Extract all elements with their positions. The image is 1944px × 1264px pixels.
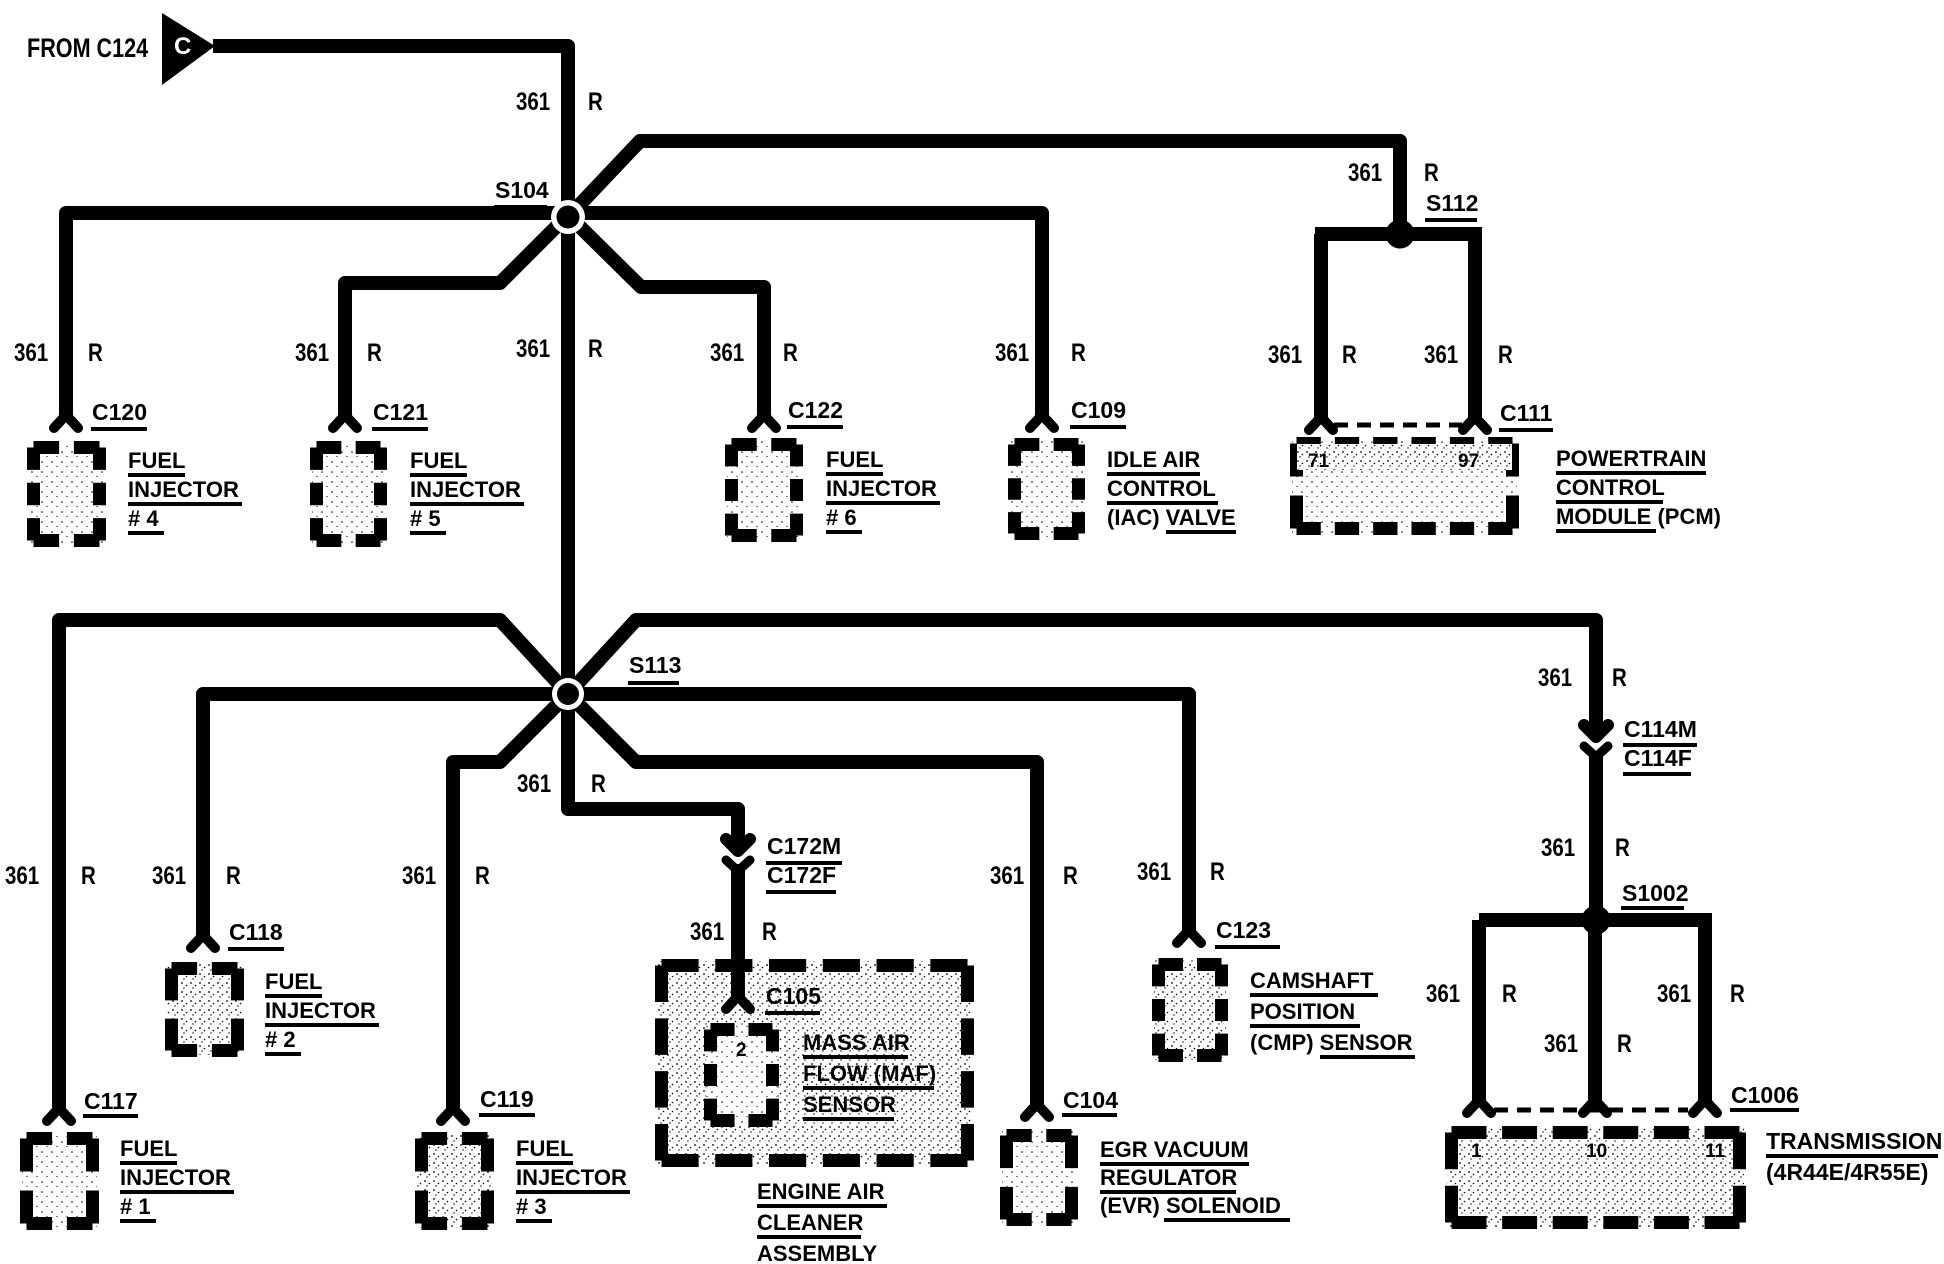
svg-text:361: 361: [990, 861, 1024, 889]
svg-text:R: R: [1498, 340, 1513, 368]
svg-text:R: R: [1730, 979, 1745, 1007]
svg-text:C121: C121: [373, 399, 428, 425]
svg-text:R: R: [1210, 857, 1225, 885]
svg-text:361: 361: [1657, 979, 1691, 1007]
PCM box C111: [1292, 439, 1517, 533]
dashed bar linking C1006 pins: [1494, 1108, 1688, 1113]
wire S113 right branch to C123: [568, 694, 1189, 930]
svg-text:C1006: C1006: [1731, 1082, 1799, 1108]
connector pin C119: [441, 1108, 465, 1121]
svg-text:361: 361: [1137, 857, 1171, 885]
svg-text:97: 97: [1458, 451, 1479, 472]
svg-text:C118: C118: [229, 919, 283, 945]
wire S104 right branch to C109: [568, 213, 1042, 415]
svg-text:C172F: C172F: [767, 862, 836, 888]
PCM box top stipple band: [1297, 444, 1512, 470]
CMP sensor connector box C123: [1154, 960, 1226, 1060]
svg-text:11: 11: [1705, 1141, 1726, 1162]
svg-text:R: R: [1424, 158, 1439, 186]
svg-text:361: 361: [1426, 979, 1460, 1007]
svg-text:C111: C111: [1500, 400, 1553, 426]
svg-text:361: 361: [14, 338, 48, 366]
svg-text:S112: S112: [1426, 190, 1478, 216]
svg-text:361: 361: [295, 338, 329, 366]
svg-text:MASS AIR: MASS AIR: [803, 1030, 910, 1055]
svg-text:EGR VACUUM: EGR VACUUM: [1100, 1137, 1249, 1162]
svg-text:R: R: [1071, 338, 1086, 366]
connector pin C120: [54, 415, 78, 428]
svg-text:CONTROL: CONTROL: [1107, 476, 1216, 501]
connector pin C1006-11: [1693, 1100, 1717, 1113]
svg-text:361: 361: [5, 861, 39, 889]
svg-text:ASSEMBLY: ASSEMBLY: [757, 1241, 878, 1264]
wire main vertical S104 to S113 (361 R): [561, 217, 575, 694]
wire from C124 arrow to S104 (361 R): [213, 46, 568, 217]
svg-text:INJECTOR: INJECTOR: [128, 477, 239, 502]
svg-text:INJECTOR: INJECTOR: [410, 477, 521, 502]
svg-text:IDLE AIR: IDLE AIR: [1107, 447, 1200, 472]
svg-text:C120: C120: [92, 399, 147, 425]
svg-text:C123: C123: [1216, 917, 1271, 943]
svg-text:FUEL: FUEL: [826, 447, 883, 472]
dashed bar linking C111 pins: [1334, 423, 1462, 428]
connector pin C111-97: [1463, 417, 1487, 430]
svg-text:C109: C109: [1071, 397, 1126, 423]
svg-text:361: 361: [1268, 340, 1302, 368]
svg-text:R: R: [591, 769, 606, 797]
svg-text:361: 361: [516, 334, 550, 362]
svg-text:361: 361: [402, 861, 436, 889]
fuel injector 3 connector box C119: [417, 1134, 492, 1228]
fuel injector 2 connector box C118: [167, 964, 242, 1055]
svg-text:C172M: C172M: [767, 833, 841, 859]
svg-text:C: C: [174, 33, 191, 60]
fuel injector 5 connector box C121: [312, 443, 385, 545]
svg-text:FUEL: FUEL: [128, 448, 185, 473]
svg-text:C114F: C114F: [1624, 745, 1692, 771]
transmission box C1006: [1447, 1128, 1744, 1227]
engine air cleaner assembly box (MAF): [657, 961, 972, 1165]
wire S104 upper-right branch to S112: [568, 141, 1400, 234]
wire S112 left leg to C111 pin 71: [1314, 234, 1328, 417]
splice S112: [1386, 220, 1415, 249]
svg-text:S113: S113: [629, 652, 681, 678]
connector pin C1006-1: [1467, 1100, 1491, 1113]
IAC valve connector box C109: [1010, 440, 1083, 538]
wire S113 upper-right branch to C114M: [568, 620, 1596, 733]
splice S1002: [1582, 906, 1611, 935]
wire S112 horizontal bar: [1315, 227, 1482, 241]
svg-text:R: R: [588, 87, 603, 115]
svg-text:REGULATOR: REGULATOR: [1100, 1165, 1237, 1190]
connector pin C118: [191, 935, 215, 948]
svg-text:FUEL: FUEL: [516, 1136, 573, 1161]
wire S113 upper-left branch to C117: [59, 620, 568, 1108]
svg-text:2: 2: [736, 1040, 747, 1061]
svg-text:# 2: # 2: [265, 1027, 296, 1052]
connector pin C123: [1177, 930, 1201, 943]
svg-text:S104: S104: [495, 177, 549, 203]
svg-text:INJECTOR: INJECTOR: [265, 998, 376, 1023]
svg-text:TRANSMISSION: TRANSMISSION: [1766, 1128, 1942, 1154]
svg-text:R: R: [1612, 663, 1627, 691]
svg-text:361: 361: [516, 87, 550, 115]
wire S1002 right leg to C1006 pin 11: [1698, 920, 1712, 1100]
EVR solenoid connector box C104: [1002, 1131, 1076, 1224]
svg-text:INJECTOR: INJECTOR: [120, 1165, 231, 1190]
svg-text:R: R: [1502, 979, 1517, 1007]
svg-text:C114M: C114M: [1624, 716, 1697, 742]
connector C172M male chevron: [726, 839, 750, 851]
svg-text:FUEL: FUEL: [265, 969, 322, 994]
splice S113: [552, 678, 584, 710]
svg-text:361: 361: [710, 338, 744, 366]
connector pin C117: [47, 1108, 71, 1121]
svg-text:R: R: [81, 861, 96, 889]
connector C172F female chevron: [726, 860, 750, 871]
svg-text:1: 1: [1471, 1141, 1482, 1162]
connector pin C1006-10: [1583, 1100, 1607, 1113]
svg-text:361: 361: [995, 338, 1029, 366]
svg-text:361: 361: [690, 917, 724, 945]
svg-text:POWERTRAIN: POWERTRAIN: [1556, 446, 1706, 471]
svg-text:(CMP) SENSOR: (CMP) SENSOR: [1250, 1030, 1413, 1055]
fuel injector 4 connector box C120: [29, 443, 104, 545]
wire S104 lower-left branch to C121: [345, 215, 568, 415]
svg-text:INJECTOR: INJECTOR: [516, 1165, 627, 1190]
splice S104: [551, 200, 585, 234]
svg-text:# 6: # 6: [826, 505, 857, 530]
svg-text:361: 361: [517, 769, 551, 797]
svg-text:R: R: [783, 338, 798, 366]
svg-text:R: R: [762, 917, 777, 945]
svg-text:(IAC) VALVE: (IAC) VALVE: [1107, 505, 1236, 530]
svg-text:FLOW (MAF): FLOW (MAF): [803, 1061, 936, 1086]
svg-text:361: 361: [1544, 1029, 1578, 1057]
connector pin C122: [752, 415, 776, 428]
wire S112 right leg to C111 pin 97: [1468, 234, 1482, 417]
svg-text:(EVR) SOLENOID: (EVR) SOLENOID: [1100, 1193, 1281, 1218]
wire S1002 center leg to C1006 pin 10: [1588, 920, 1602, 1100]
svg-text:CONTROL: CONTROL: [1556, 475, 1665, 500]
fuel injector 6 connector box C122: [727, 440, 801, 540]
svg-text:R: R: [1342, 340, 1357, 368]
svg-text:R: R: [475, 861, 490, 889]
MAF sensor inner box pin 2: [706, 1025, 777, 1125]
svg-text:361: 361: [152, 861, 186, 889]
connector C114M male chevron: [1584, 725, 1608, 737]
svg-text:R: R: [1615, 833, 1630, 861]
triangle arrow from C124: [162, 13, 215, 85]
svg-text:R: R: [1063, 861, 1078, 889]
svg-text:R: R: [1617, 1029, 1632, 1057]
svg-text:C105: C105: [766, 983, 821, 1009]
connector pin C121: [333, 415, 357, 428]
svg-text:R: R: [226, 861, 241, 889]
svg-text:C119: C119: [480, 1086, 534, 1112]
svg-text:C122: C122: [788, 397, 843, 423]
svg-text:FUEL: FUEL: [410, 448, 467, 473]
svg-text:R: R: [588, 334, 603, 362]
wire S113 lower-right branch to C104: [568, 694, 1037, 1104]
svg-text:POSITION: POSITION: [1250, 999, 1355, 1024]
wire C172F to C105: [731, 864, 745, 996]
svg-text:C117: C117: [84, 1088, 138, 1114]
svg-text:C104: C104: [1063, 1087, 1118, 1113]
wire S113 lower-left branch to C119: [453, 694, 568, 1108]
wire S104 lower-right branch to C122: [568, 215, 764, 415]
wire S1002 horizontal bar: [1479, 913, 1712, 927]
wire S113 left branch to C118: [203, 694, 568, 935]
svg-text:CLEANER: CLEANER: [757, 1210, 863, 1235]
wire S104 left branch to C120: [66, 213, 568, 415]
connector C114F female chevron: [1584, 746, 1608, 757]
wire S1002 left leg to C1006 pin 1: [1472, 920, 1486, 1100]
fuel injector 1 connector box C117: [22, 1134, 97, 1228]
svg-text:R: R: [88, 338, 103, 366]
svg-text:361: 361: [1538, 663, 1572, 691]
svg-text:# 5: # 5: [410, 506, 441, 531]
svg-text:FROM C124: FROM C124: [27, 34, 149, 64]
connector pin C111-71: [1309, 417, 1333, 430]
svg-text:INJECTOR: INJECTOR: [826, 476, 937, 501]
svg-text:# 4: # 4: [128, 506, 159, 531]
svg-text:361: 361: [1541, 833, 1575, 861]
svg-text:SENSOR: SENSOR: [803, 1092, 896, 1117]
svg-text:361: 361: [1348, 158, 1382, 186]
svg-text:R: R: [367, 338, 382, 366]
connector pin C109: [1030, 415, 1054, 428]
connector pin C104: [1025, 1104, 1049, 1117]
svg-text:(4R44E/4R55E): (4R44E/4R55E): [1766, 1159, 1928, 1185]
svg-text:361: 361: [1424, 340, 1458, 368]
connector pin C105: [726, 996, 750, 1009]
wire C114F to S1002: [1589, 753, 1603, 920]
svg-text:ENGINE AIR: ENGINE AIR: [757, 1179, 885, 1204]
wire S113 down branch to C172M: [568, 694, 738, 849]
svg-text:S1002: S1002: [1622, 880, 1689, 906]
svg-text:# 3: # 3: [516, 1194, 547, 1219]
svg-text:FUEL: FUEL: [120, 1136, 177, 1161]
svg-text:CAMSHAFT: CAMSHAFT: [1250, 968, 1374, 993]
svg-text:71: 71: [1308, 451, 1330, 472]
svg-text:# 1: # 1: [120, 1194, 151, 1219]
svg-text:10: 10: [1586, 1141, 1607, 1162]
svg-text:MODULE (PCM): MODULE (PCM): [1556, 504, 1721, 529]
